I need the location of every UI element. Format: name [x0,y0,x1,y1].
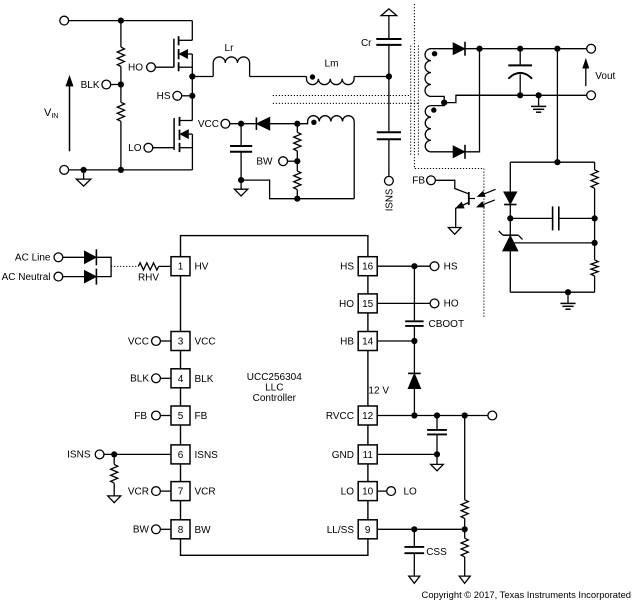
svg-text:FB: FB [412,176,425,187]
junction aux bottom rail [294,196,300,202]
wire D2 up to output rail [465,49,480,152]
node VIN+ input terminal [60,16,69,25]
svg-text:Lm: Lm [325,59,339,70]
wire aux return path [241,180,354,199]
svg-text:Vout: Vout [595,71,615,82]
wire HO pin to terminal [377,302,430,304]
node HO output terminal [430,299,439,308]
svg-text:Copyright © 2017, Texas Instru: Copyright © 2017, Texas Instruments Inco… [422,589,631,600]
aux winding phase dot [311,120,316,125]
diode AC neutral rectifier [85,271,96,283]
junction center tap [441,100,447,106]
wire VIN arrow shaft [69,84,71,151]
svg-text:BW: BW [133,525,150,536]
wire FB pin stub [160,415,171,417]
upper winding phase dot [432,51,437,56]
junction RVCC diode node [411,412,417,418]
resistor RHV [138,263,158,270]
svg-text:HS: HS [157,91,171,102]
svg-text:HB: HB [340,337,354,348]
ground opto emitter [448,228,461,235]
wire Vout- rail [456,94,587,96]
ground primary at VIN- [83,170,85,179]
svg-text:BLK: BLK [81,80,100,91]
svg-text:CSS: CSS [426,547,447,558]
wire Lr to Lm [250,76,307,78]
capacitor output electrolytic [519,49,521,66]
node HO gate terminal [147,63,156,72]
junction bottom rail at ground [81,167,87,173]
svg-text:BLK: BLK [195,374,214,385]
svg-text:7: 7 [178,487,184,498]
wire CBOOT to HB [413,326,415,341]
svg-text:Cr: Cr [361,38,372,49]
diode aux rectifier [255,117,257,130]
diode AC line rectifier [85,251,96,263]
wire bottom rail VIN- [68,169,192,171]
junction RVCC cap node [434,412,440,418]
diode secondary rectifier D2 [453,146,464,157]
svg-text:10: 10 [362,487,374,498]
diode boot RVCC to HB [408,372,421,374]
junction ISNS resistor node [111,451,117,457]
svg-text:4: 4 [178,374,184,385]
junction half-bridge node HB to Lr [189,73,195,79]
wire output rail to Vout+ [520,48,587,50]
svg-text:8: 8 [178,525,184,536]
wire TL431 reference to divider [514,242,595,244]
wire HB node vertical [191,77,193,121]
pin 11 GND [358,445,377,464]
node BW tap terminal [279,157,288,166]
wire upper winding bottom to center tap [431,96,444,105]
wire center tap jog to mid rail [444,95,520,102]
node LO gate terminal [144,143,153,152]
wire feedback bottom rail [510,291,594,293]
wire zener to bottom rail [509,251,511,292]
junction HB node [411,338,417,344]
svg-text:Lr: Lr [225,43,235,54]
svg-text:LLC: LLC [265,382,283,393]
svg-text:15: 15 [362,299,374,310]
svg-text:VCR: VCR [195,487,216,498]
svg-text:BLK: BLK [130,374,149,385]
svg-text:HO: HO [444,299,459,310]
junction reference node [592,240,598,246]
wire LO gate lead [152,147,174,149]
wire divider mid [594,218,596,259]
ground secondary output [538,95,540,106]
wire lower winding to rectifier 2 [431,151,453,153]
wire RVCC pin to terminal [377,415,488,417]
svg-text:LO: LO [341,487,355,498]
capacitor ISNS sense [377,131,401,133]
wire ISNS pin wire [104,453,171,455]
capacitor feedback compensation [510,217,552,219]
svg-text:6: 6 [178,450,184,461]
junction node BLK [118,81,124,87]
wire HS pin to terminal [377,265,430,267]
ground VCC cap [240,180,242,189]
wire dotted HV link [111,265,138,267]
wire Vout+ down to feedback [556,49,558,163]
ground GND pin [436,454,438,464]
wire FB to opto collector [435,180,468,193]
junction output cap top [517,46,523,52]
svg-text:VCR: VCR [128,486,149,497]
opto light arrow 2 [480,200,495,206]
pin 16 HS [358,257,377,276]
wire HB pin to node [377,340,414,342]
label Vout with arrow [585,67,587,86]
node BLK terminal [102,80,111,89]
svg-text:3: 3 [178,337,184,348]
node AC Line terminal [54,253,63,262]
svg-text:GND: GND [332,450,354,461]
wire top rail VIN+ to half-bridge [68,20,192,22]
junction feedback ground [565,289,571,295]
wire AC Neutral to diode [62,276,84,278]
node VCR pin terminal [152,487,161,496]
wire HO gate lead [155,66,174,68]
junction output cap bottom [517,92,523,98]
transformer core dashed line horizontal lower [273,102,418,104]
ground LL/SS divider [459,576,470,583]
junction feedback takeoff [554,46,560,52]
svg-text:HO: HO [128,63,143,74]
resistor BW divider upper [296,124,298,133]
svg-text:UCC256304: UCC256304 [247,372,302,383]
ground CSS [409,576,420,583]
pin 7 VCR [171,482,190,501]
secondary winding lower [425,106,431,152]
wire BLK stub [110,84,121,86]
junction comp node right [592,215,598,221]
Lm phase dot [310,74,315,79]
inductor aux winding [297,116,354,199]
svg-text:BW: BW [195,525,212,536]
secondary winding upper [425,49,431,97]
pin 8 BW [171,520,190,539]
wire BW stub [287,160,297,162]
lower winding phase dot [431,107,436,112]
junction VCC cap ground node [238,177,244,183]
transistor Q2 low-side MOSFET [173,118,175,150]
wire VCC to diode [229,123,256,125]
node BLK pin terminal [152,374,161,383]
wire LL/SS pin to divider [377,528,465,530]
capacitor VCC bulk [240,124,242,145]
wire Lm to Cr node [354,76,389,78]
wire VCR pin stub [160,490,171,492]
svg-text:11: 11 [363,450,374,461]
svg-text:HV: HV [195,262,209,273]
wire to opto LED [509,162,511,192]
optocoupler LED [504,192,516,204]
node HS terminal [173,91,182,100]
svg-text:VCC: VCC [128,336,149,347]
wire boot diode to RVCC rail [413,388,415,415]
svg-text:RVCC: RVCC [326,411,354,422]
node AC Neutral terminal [54,272,63,281]
pin 6 ISNS [171,445,190,464]
svg-text:12 V: 12 V [368,386,389,397]
node HS output terminal [430,262,439,271]
node RVCC terminal [488,411,497,420]
pin 4 BLK [171,369,190,388]
junction HS node [189,93,195,99]
bus arrow above Cr [381,9,397,16]
junction GND cap node [434,451,440,457]
node Vout- terminal [587,91,596,100]
wire Cr to node [388,45,390,77]
wire RHV to pin 1 [159,265,171,267]
pin 3 VCC [171,332,190,351]
inductor Lm magnetizing [307,77,355,85]
capacitor CBOOT [405,320,423,322]
label VIN with arrow [69,79,71,152]
junction RVCC divider node [462,412,468,418]
node ISNS pin terminal [95,450,104,459]
svg-text:ISNS: ISNS [67,450,91,461]
transformer core dashed line vertical right [417,46,419,157]
wire feedback top rail [510,161,594,163]
node Vout+ terminal [587,44,596,53]
node LO output terminal [387,487,396,496]
svg-text:VCC: VCC [198,119,219,130]
wire HS stub [181,95,192,97]
resistor BLK divider upper [120,21,122,47]
junction HS CBOOT node [411,263,417,269]
wire D1 to output rail [465,48,520,50]
junction D2 return on output rail [476,46,482,52]
opto light arrow 1 [481,189,496,195]
transformer core dashed line horizontal upper [273,95,411,97]
IC U1 UCC256304 outline [181,236,368,556]
wire BW pin stub [160,528,171,530]
wire diode to aux node [270,123,298,125]
node BW pin terminal [152,525,161,534]
wire upper winding top to rectifier [431,48,453,50]
resistor ISNS sense [113,454,115,464]
resistor LL/SS divider lower [464,529,466,538]
junction aux winding node [294,121,300,127]
junction top of BLK divider [118,18,124,24]
svg-text:12: 12 [362,411,374,422]
svg-text:14: 14 [362,337,374,348]
pin 10 LO [358,482,377,501]
svg-text:9: 9 [365,525,371,536]
junction LL/SS divider node [462,526,468,532]
resistor feedback divider lower [591,260,598,276]
svg-text:LL/SS: LL/SS [327,525,355,536]
wire diode cathodes join [96,257,111,276]
pin 15 HO [358,294,377,313]
svg-text:LO: LO [404,486,418,497]
capacitor CSS [413,529,415,546]
junction comp node left [507,215,513,221]
transistor Q1 high-side MOSFET [173,39,175,68]
svg-text:1: 1 [178,262,184,273]
svg-text:BW: BW [256,157,273,168]
junction secondary ground [536,92,542,98]
svg-text:FB: FB [195,411,208,422]
resistor LL/SS divider upper [464,416,466,500]
transformer core dashed line vertical left [410,46,412,157]
node VCC pin terminal [152,337,161,346]
capacitor RVCC decoupling [436,416,438,430]
svg-text:VCC: VCC [195,337,216,348]
wire HB to Lr [192,76,213,78]
node VCC supply terminal [221,119,230,128]
shunt regulator zener TL431 [503,234,518,236]
pin 5 FB [171,406,190,425]
pin 12 RVCC [358,406,377,425]
svg-text:FB: FB [134,411,147,422]
node VIN- input terminal [60,166,69,175]
wire LO pin stub [377,490,387,492]
wire CBOOT branch upper [413,266,415,320]
diode secondary rectifier D1 [453,43,464,54]
svg-text:HS: HS [444,262,458,273]
junction feedback top rail [554,159,560,165]
pin 1 HV [171,257,190,276]
ground feedback network [567,292,569,303]
wire to ISNS terminal [388,139,390,176]
junction BW node [294,158,300,164]
node FB terminal secondary [427,176,436,185]
wire AC Line to diode [62,256,84,258]
svg-text:RHV: RHV [138,272,159,283]
svg-text:AC Line: AC Line [15,253,51,264]
wire VCC pin stub [160,340,171,342]
junction bottom of BLK divider [118,167,124,173]
wire node down to ISNS cap [388,77,390,132]
junction VCC cap node [238,121,244,127]
wire LED to comp node [509,205,511,235]
ground ISNS resistor [108,496,121,503]
wire GND pin to cap [377,453,437,455]
pin 14 HB [358,332,377,351]
node FB pin terminal [152,411,161,420]
VIN arrowhead [66,77,72,86]
svg-text:AC Neutral: AC Neutral [2,272,51,283]
svg-text:16: 16 [362,262,374,273]
isolation boundary dotted [414,4,484,318]
inductor Lr [213,57,249,77]
wire BLK pin stub [160,377,171,379]
svg-text:LO: LO [128,143,142,154]
junction resonant node [386,73,392,79]
optocoupler phototransistor [468,192,470,205]
svg-text:Controller: Controller [253,393,297,404]
junction CSS node [411,526,417,532]
pin 9 LL/SS [358,520,377,539]
svg-text:HO: HO [339,299,354,310]
resistor feedback divider upper [594,162,596,170]
node ISNS terminal [385,176,394,185]
svg-text:HS: HS [340,262,354,273]
wire HB node to boot diode [413,341,415,373]
resistor BW divider lower [296,161,298,171]
svg-text:5: 5 [178,411,184,422]
svg-text:CBOOT: CBOOT [429,319,465,330]
capacitor Cr [376,38,401,40]
svg-text:ISNS: ISNS [195,450,219,461]
svg-text:ISNS: ISNS [385,188,396,211]
resistor BLK divider lower [120,85,122,103]
